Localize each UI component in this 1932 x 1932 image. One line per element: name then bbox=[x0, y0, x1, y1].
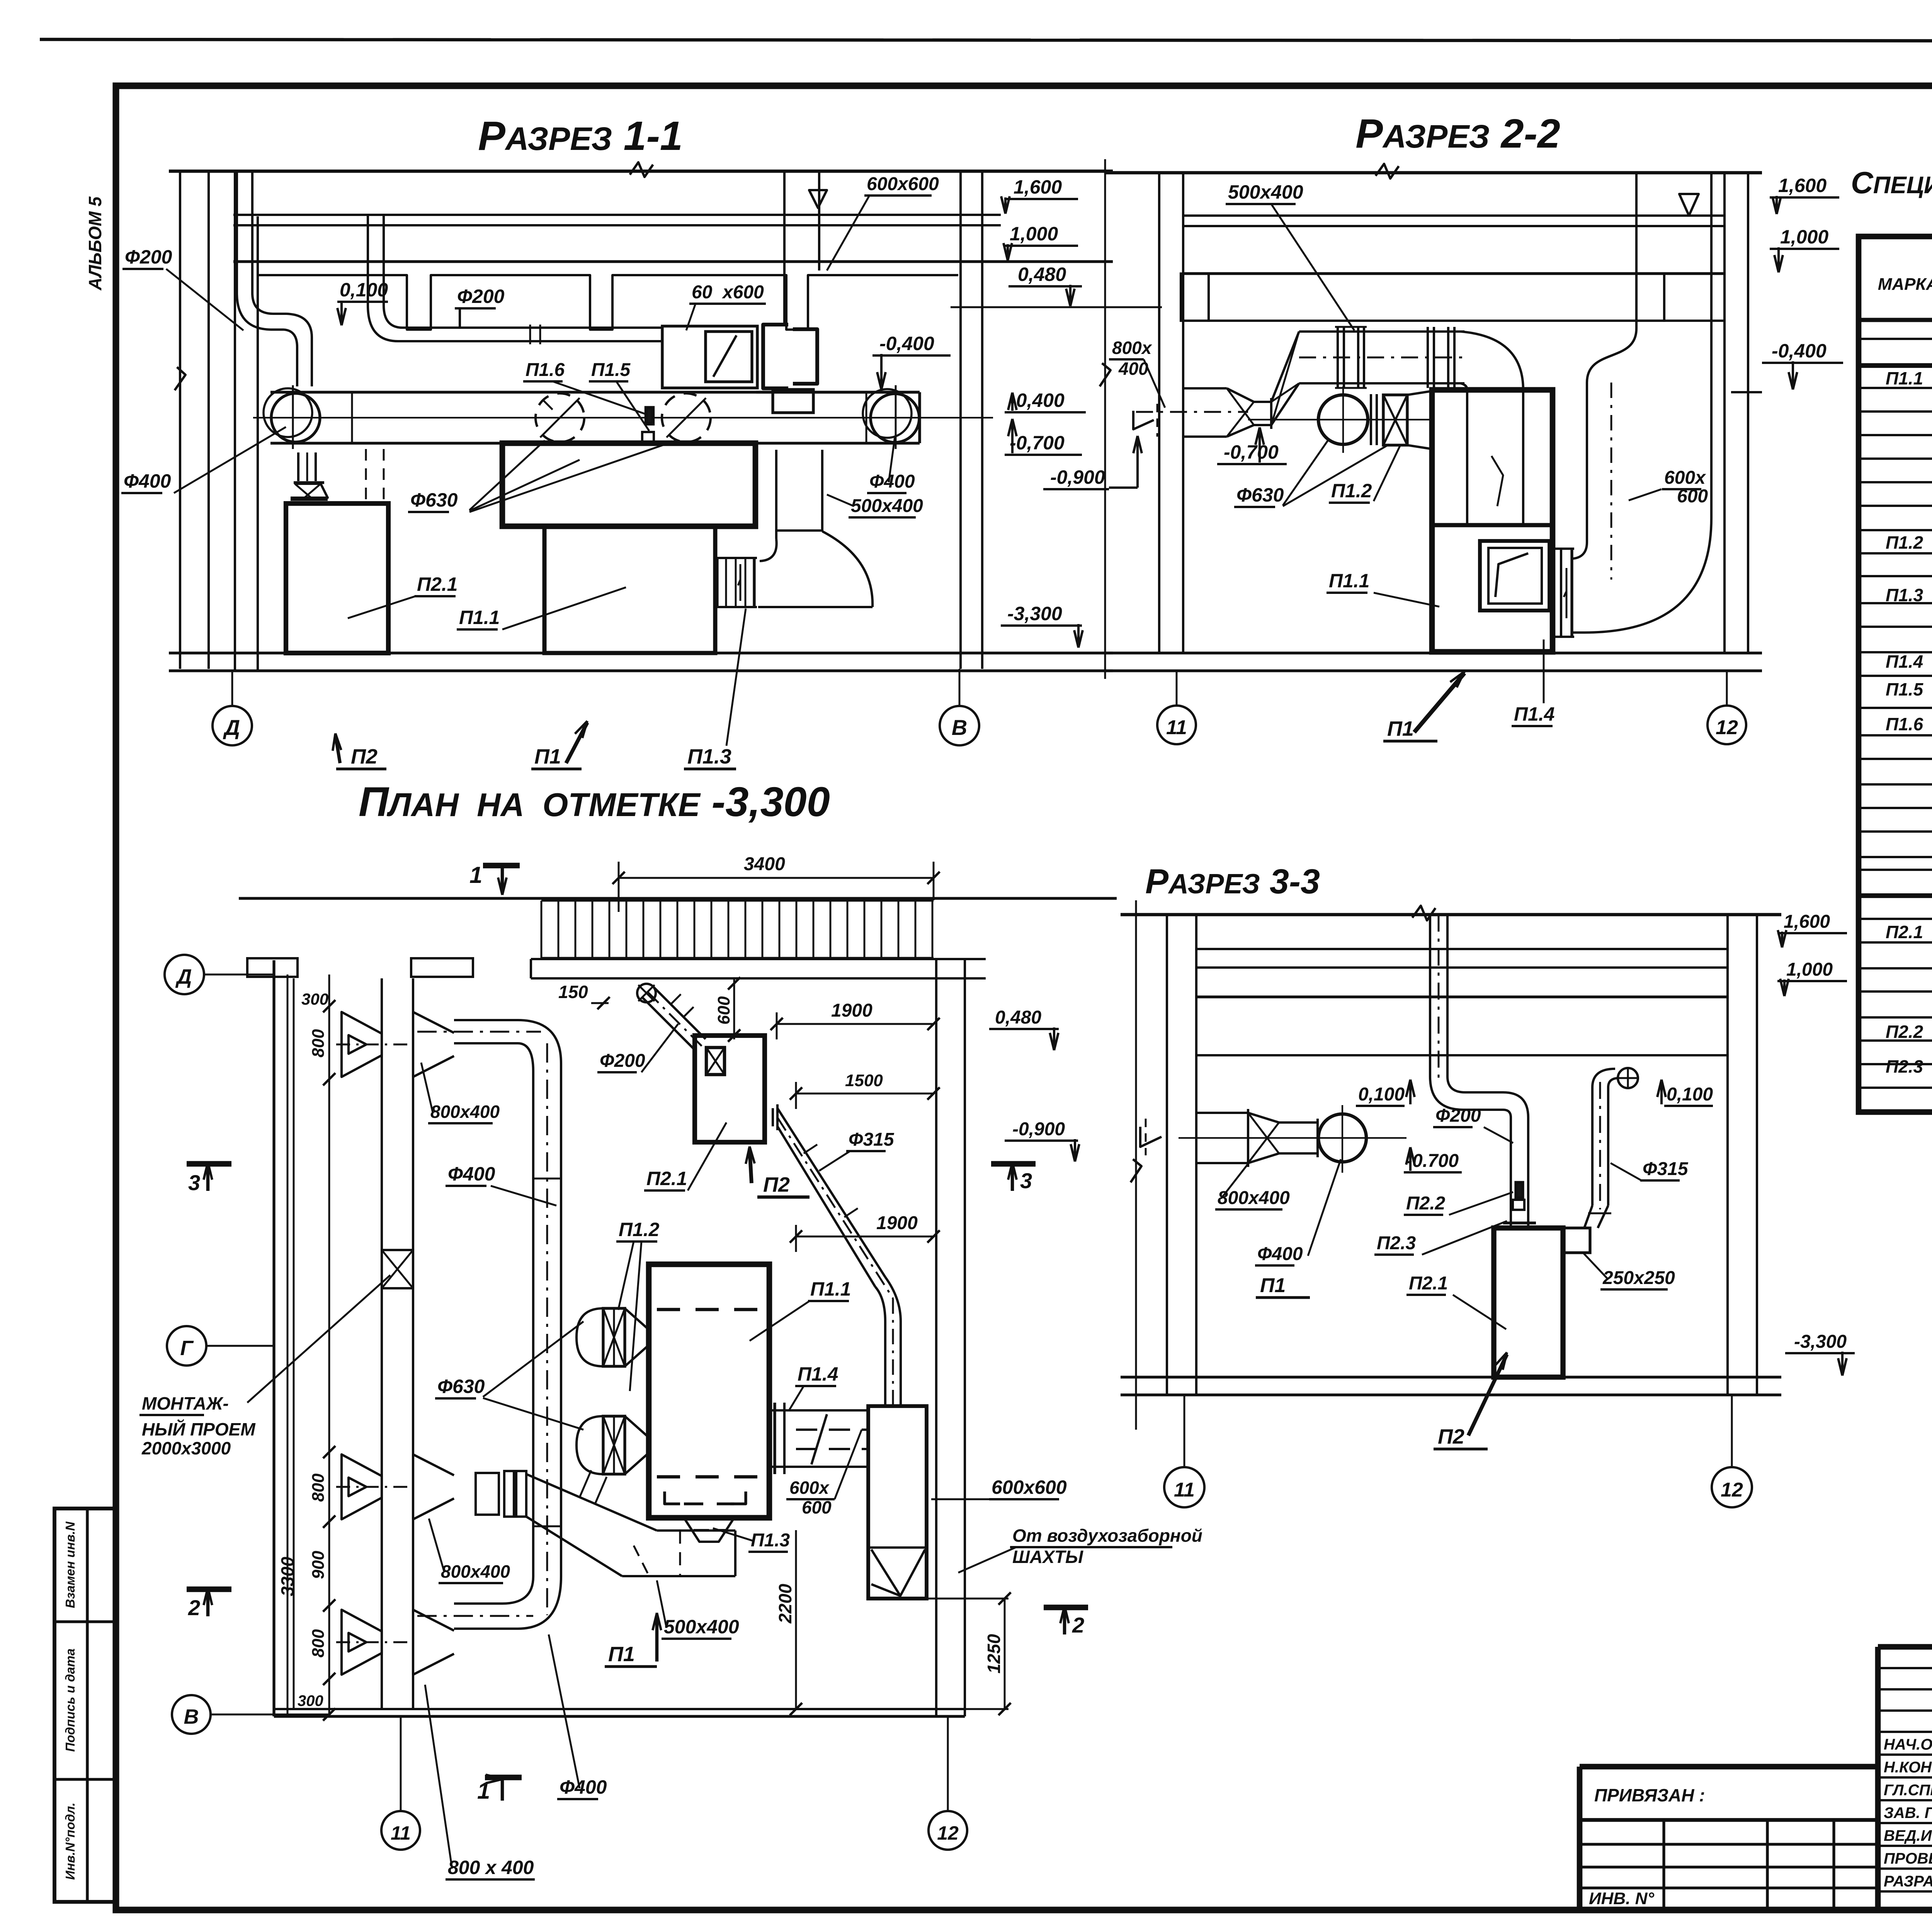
s3-3 axis 11 bbox=[1184, 1395, 1185, 1467]
svg-text:2000х3000: 2000х3000 bbox=[141, 1438, 231, 1458]
svg-text:2: 2 bbox=[1072, 1613, 1084, 1637]
plan 500x400 diagonal bbox=[526, 1474, 657, 1531]
s2-2 valve P1.2 box bbox=[1383, 395, 1407, 445]
svg-text:300: 300 bbox=[298, 1692, 323, 1709]
svg-text:П1.3: П1.3 bbox=[1886, 585, 1923, 605]
s1-1 duct end circle right bbox=[871, 394, 919, 442]
svg-text:П1: П1 bbox=[1387, 717, 1414, 740]
plan loop duct bottom run bbox=[454, 1602, 502, 1605]
svg-text:Ф630: Ф630 bbox=[1236, 484, 1284, 506]
svg-text:Г: Г bbox=[180, 1337, 194, 1360]
svg-text:Инв.N°подл.: Инв.N°подл. bbox=[63, 1803, 77, 1880]
plan f315 flange bbox=[764, 1106, 766, 1128]
svg-text:АЛЬБОМ 5: АЛЬБОМ 5 bbox=[85, 196, 105, 291]
plan funnel top bbox=[342, 1012, 382, 1077]
svg-text:П2: П2 bbox=[763, 1173, 790, 1196]
spec table row lines bbox=[1859, 338, 1932, 340]
s2-2 axis 12 bbox=[1726, 671, 1728, 706]
svg-text:П1: П1 bbox=[534, 745, 561, 768]
s3-3 inlet triangle bbox=[1140, 1127, 1162, 1147]
s1-1 shaft 600x600 lines bbox=[783, 173, 786, 325]
svg-text:1250: 1250 bbox=[984, 1634, 1004, 1673]
svg-text:500х400: 500х400 bbox=[664, 1616, 739, 1638]
plan dim 2200 bbox=[795, 1530, 797, 1709]
svg-text:ИНВ. N°: ИНВ. N° bbox=[1589, 1889, 1654, 1908]
svg-text:П2.2: П2.2 bbox=[1886, 1022, 1923, 1042]
svg-text:Ф200: Ф200 bbox=[600, 1051, 645, 1071]
svg-text:1,600: 1,600 bbox=[1784, 912, 1830, 932]
s3-3 beam line bbox=[1196, 1054, 1728, 1056]
svg-text:3: 3 bbox=[1020, 1168, 1032, 1193]
plan section mark 3 right bbox=[991, 1161, 1036, 1167]
s2-2 axis 11 bbox=[1176, 671, 1178, 706]
svg-text:П2: П2 bbox=[351, 745, 378, 768]
s3-3 ceiling break bbox=[1412, 906, 1435, 920]
plan right unit funnel bbox=[868, 1546, 927, 1549]
svg-text:11: 11 bbox=[391, 1822, 411, 1844]
s1-1 dashed pipe to P2.1 bbox=[365, 449, 367, 502]
plan dim 600 bbox=[733, 978, 735, 1039]
plan right wall bbox=[935, 959, 937, 1716]
plan funnel mid bbox=[342, 1454, 382, 1519]
svg-text:Ф400: Ф400 bbox=[869, 471, 915, 492]
svg-text:Ф400: Ф400 bbox=[448, 1163, 495, 1185]
svg-text:Ф630: Ф630 bbox=[437, 1376, 485, 1397]
svg-text:РАЗРЕЗ 2-2: РАЗРЕЗ 2-2 bbox=[1355, 111, 1560, 156]
svg-text:-0,400: -0,400 bbox=[879, 333, 934, 354]
plan P2.1 inner square bbox=[706, 1048, 724, 1075]
s3-3 fan circle bbox=[1318, 1114, 1366, 1162]
svg-text:500х400: 500х400 bbox=[1228, 181, 1303, 203]
plan dim 3400 bbox=[619, 877, 934, 879]
s1-1 duct riser2 bbox=[367, 215, 369, 305]
s3-3 left break mark bbox=[1131, 1159, 1141, 1182]
s3-3 slab soffit bbox=[1196, 995, 1728, 998]
s3-3 ceiling line1 bbox=[1121, 913, 1781, 917]
s1-1 right wall lines bbox=[959, 171, 962, 669]
plan loop duct centerlines bbox=[546, 1043, 548, 1615]
svg-text:П1.3: П1.3 bbox=[751, 1530, 790, 1551]
svg-text:Ф400: Ф400 bbox=[1257, 1244, 1303, 1264]
svg-text:600: 600 bbox=[1677, 486, 1708, 507]
plan 500x400 horizontal bbox=[657, 1529, 735, 1532]
svg-text:П1.4: П1.4 bbox=[798, 1363, 838, 1385]
s2-2 outer thin wall line bbox=[1104, 159, 1106, 679]
svg-text:-0,400: -0,400 bbox=[1010, 389, 1065, 411]
s2-2 duct centerline dash bbox=[1136, 411, 1248, 413]
plan P1.1 bottom cone bbox=[684, 1518, 734, 1542]
s3-3 pipe elbow right bbox=[1430, 1077, 1503, 1110]
s1-1 unit P1.1 upper box bbox=[502, 443, 755, 526]
svg-text:-3,300: -3,300 bbox=[1007, 603, 1062, 624]
s2-2 floor lines bbox=[1105, 651, 1762, 654]
left stamp column boxes bbox=[54, 1509, 116, 1902]
svg-text:60 х600: 60 х600 bbox=[692, 282, 764, 303]
svg-text:0,100: 0,100 bbox=[340, 279, 388, 301]
svg-text:РАЗРЕЗ 3-3: РАЗРЕЗ 3-3 bbox=[1145, 862, 1320, 901]
s2-2 left wall bbox=[1158, 173, 1160, 653]
s1-1 main duct band bbox=[270, 391, 920, 393]
plan bottom wall bbox=[274, 1708, 965, 1710]
svg-text:1900: 1900 bbox=[876, 1213, 918, 1233]
s2-2 inlet triangle bbox=[1133, 411, 1154, 429]
s3-3 axis 12 bbox=[1731, 1395, 1733, 1467]
plan top small wall pieces bbox=[247, 958, 298, 977]
svg-text:800х400: 800х400 bbox=[1218, 1188, 1290, 1208]
s2-2 duct flange 1 bbox=[1337, 327, 1339, 388]
svg-text:600х600: 600х600 bbox=[992, 1476, 1067, 1498]
svg-text:П1.4: П1.4 bbox=[1514, 703, 1554, 725]
plan filter 2 bbox=[577, 1416, 603, 1474]
plan P1.1 dashed top bbox=[657, 1308, 761, 1311]
s1-1 duct joint line bbox=[351, 392, 353, 443]
svg-text:1,000: 1,000 bbox=[1010, 223, 1058, 245]
svg-text:СПЕЦИФИКАЦИЯ ОТОПИТЕЛЬНО-ВЕНТ: СПЕЦИФИКАЦИЯ ОТОПИТЕЛЬНО-ВЕНТИЛАЦИОННЫХ … bbox=[1851, 165, 1932, 200]
plan P1.1 box bbox=[649, 1264, 769, 1518]
plan wall crosshatch box bbox=[382, 1250, 413, 1288]
s2-2 beam notch left bbox=[1181, 274, 1209, 321]
s2-2 right wall bbox=[1723, 173, 1726, 653]
svg-text:ВЕД.ИНЖ.: ВЕД.ИНЖ. bbox=[1884, 1827, 1932, 1844]
s3-3 right wall bbox=[1726, 915, 1729, 1395]
svg-text:250х250: 250х250 bbox=[1602, 1268, 1675, 1288]
svg-text:0,480: 0,480 bbox=[1018, 264, 1066, 285]
svg-text:800: 800 bbox=[309, 1029, 328, 1058]
s2-2 rising transition bbox=[1271, 332, 1299, 402]
plan f200 duct diagonal bbox=[637, 984, 656, 1002]
svg-text:П1.5: П1.5 bbox=[1886, 679, 1923, 699]
svg-text:ПРИВЯЗАН :: ПРИВЯЗАН : bbox=[1594, 1785, 1705, 1805]
plan dim 1900 a bbox=[777, 1023, 934, 1025]
s1-1 left wall lines bbox=[179, 171, 181, 669]
s3-3 pipe f200 vertical bbox=[1429, 915, 1431, 1077]
plan section mark 3 left bbox=[187, 1161, 231, 1167]
s1-1 fan circle dashed 2 bbox=[662, 393, 711, 442]
svg-text:П2.3: П2.3 bbox=[1377, 1233, 1416, 1253]
svg-text:12: 12 bbox=[937, 1822, 959, 1844]
s1-1 unit P1.1 lower box bbox=[544, 526, 715, 653]
s2-2 break mark bbox=[1100, 363, 1111, 386]
svg-text:П1.4: П1.4 bbox=[1886, 651, 1923, 672]
plan left wall bbox=[272, 960, 275, 1716]
svg-text:МАРКА: МАРКА bbox=[1878, 275, 1932, 294]
svg-text:П2.1: П2.1 bbox=[1409, 1273, 1448, 1294]
svg-text:12: 12 bbox=[1716, 716, 1738, 739]
svg-text:Д: Д bbox=[223, 715, 240, 740]
s1-1 valve P1.3 bbox=[716, 558, 718, 607]
svg-text:1: 1 bbox=[469, 862, 482, 888]
s1-1 P2.1 inlet cone bbox=[297, 452, 299, 481]
plan dim 1500 bbox=[796, 1093, 934, 1095]
s1-1 fan circle dashed 1 bbox=[536, 393, 584, 442]
plan axis B bbox=[172, 1695, 211, 1734]
svg-text:-0,900: -0,900 bbox=[1012, 1119, 1065, 1139]
s2-2 slab soffit bbox=[1183, 272, 1725, 275]
svg-text:Ф315: Ф315 bbox=[849, 1129, 895, 1150]
svg-text:Ф200: Ф200 bbox=[457, 286, 505, 307]
s3-3 f315 top elbow bbox=[1592, 1069, 1615, 1087]
plan left dim line bbox=[328, 975, 330, 1714]
spec table outer frame bbox=[1859, 236, 1932, 1112]
svg-text:П2.2: П2.2 bbox=[1406, 1193, 1446, 1214]
svg-text:2200: 2200 bbox=[775, 1583, 795, 1624]
s1-1 ceiling line3 bbox=[233, 224, 1001, 226]
s2-2 inlet duct bbox=[1183, 387, 1227, 389]
s2-2 ceiling line2 bbox=[1183, 214, 1725, 217]
svg-text:0,480: 0,480 bbox=[995, 1007, 1041, 1028]
plan P1.4 duct bbox=[769, 1409, 868, 1412]
svg-text:2: 2 bbox=[188, 1595, 200, 1620]
s3-3 pipe elbow down bbox=[1503, 1092, 1528, 1117]
s3-3 sensor P2.2 bbox=[1516, 1182, 1523, 1198]
s2-2 beam line bbox=[1183, 320, 1725, 322]
s1-1 duct right part bbox=[756, 391, 920, 393]
title block top border bbox=[1878, 1644, 1932, 1650]
s2-2 upper duct band bbox=[1299, 330, 1464, 333]
svg-text:800х: 800х bbox=[1112, 338, 1153, 358]
s3-3 unit top flange bbox=[1503, 1221, 1536, 1224]
svg-text:Ф400: Ф400 bbox=[560, 1776, 607, 1798]
svg-text:Подпись и дата: Подпись и дата bbox=[63, 1648, 77, 1752]
svg-text:Д: Д bbox=[175, 965, 192, 988]
svg-text:0,100: 0,100 bbox=[1358, 1084, 1405, 1105]
plan f315 diagonal bbox=[777, 1108, 885, 1277]
s2-2 level triangle bbox=[1679, 194, 1699, 216]
s3-3 left outer line bbox=[1135, 900, 1137, 1430]
svg-text:НАЧ.ОТД.: НАЧ.ОТД. bbox=[1884, 1736, 1932, 1753]
svg-text:МОНТАЖ-: МОНТАЖ- bbox=[142, 1393, 229, 1413]
s2-2 right duct centerline bbox=[1611, 383, 1612, 580]
plan section mark 2 right bbox=[1044, 1605, 1088, 1611]
svg-text:П1.6: П1.6 bbox=[1886, 714, 1923, 734]
plan axis G bbox=[167, 1326, 206, 1366]
s2-2 P1.4 flange bbox=[1570, 549, 1573, 637]
svg-text:900: 900 bbox=[309, 1551, 328, 1579]
s1-1 sensor glyphs bbox=[646, 408, 653, 424]
s1-1 floor lines bbox=[169, 651, 1113, 654]
s3-3 f315 bottom transition bbox=[1584, 1206, 1592, 1228]
s3-3 inlet duct bbox=[1196, 1112, 1248, 1114]
svg-text:-3,300: -3,300 bbox=[1794, 1332, 1847, 1352]
svg-text:-0,700: -0,700 bbox=[1010, 432, 1065, 454]
plan axis D bbox=[165, 955, 204, 994]
s1-1 ceiling line2 bbox=[233, 214, 1001, 216]
svg-text:НЫЙ ПРОЕМ: НЫЙ ПРОЕМ bbox=[142, 1419, 256, 1439]
plan top wall line bbox=[239, 897, 1117, 900]
s2-2 unit inner box bbox=[1480, 541, 1549, 611]
s1-1 duct end circle left bbox=[271, 393, 320, 442]
svg-text:800х400: 800х400 bbox=[430, 1102, 500, 1122]
svg-text:П1.2: П1.2 bbox=[1886, 532, 1923, 553]
svg-text:12: 12 bbox=[1721, 1479, 1743, 1501]
s1-1 filter box 600x600 bbox=[662, 326, 757, 388]
s1-1 ceiling slab line bbox=[169, 170, 1113, 173]
svg-text:Ф630: Ф630 bbox=[410, 489, 458, 511]
sheet outer top edge line bbox=[40, 39, 1932, 41]
svg-text:РАЗРЕЗ 1-1: РАЗРЕЗ 1-1 bbox=[478, 113, 683, 159]
s2-2 right duct outer wall bbox=[1572, 173, 1711, 633]
svg-text:800 х 400: 800 х 400 bbox=[448, 1857, 534, 1878]
s1-1 unit P2.1 box bbox=[286, 503, 388, 653]
svg-text:0,100: 0,100 bbox=[1667, 1084, 1713, 1105]
svg-text:1,000: 1,000 bbox=[1780, 226, 1828, 248]
spec table header row bbox=[1859, 318, 1932, 322]
svg-text:П1.6: П1.6 bbox=[526, 360, 565, 380]
svg-text:В: В bbox=[952, 715, 967, 740]
svg-text:П1.1: П1.1 bbox=[459, 607, 500, 628]
svg-text:ШАХТЫ: ШАХТЫ bbox=[1012, 1547, 1083, 1567]
s1-1 wall break mark bbox=[175, 367, 185, 390]
svg-text:300: 300 bbox=[301, 990, 328, 1008]
plan funnel bottom bbox=[342, 1610, 382, 1675]
svg-text:3400: 3400 bbox=[744, 854, 785, 874]
s2-2 right duct inner wall bbox=[1572, 173, 1636, 559]
plan hatch strip stairs bbox=[541, 900, 934, 902]
svg-text:1,000: 1,000 bbox=[1786, 959, 1833, 980]
svg-text:-0,400: -0,400 bbox=[1772, 340, 1827, 362]
svg-text:ПЛАН НА ОТМЕТКЕ -3,300: ПЛАН НА ОТМЕТКЕ -3,300 bbox=[359, 778, 830, 825]
svg-text:П2.1: П2.1 bbox=[417, 573, 457, 595]
svg-text:800: 800 bbox=[309, 1473, 328, 1502]
svg-text:150: 150 bbox=[558, 982, 588, 1002]
svg-text:ГЛ.СПЕЦ.: ГЛ.СПЕЦ. bbox=[1884, 1782, 1932, 1799]
svg-text:П1.5: П1.5 bbox=[591, 360, 631, 380]
s2-2 fan flanges bbox=[1370, 394, 1372, 445]
plan P1.1 dashed bottom bbox=[657, 1475, 761, 1479]
s3-3 floor lines bbox=[1121, 1376, 1781, 1378]
s1-1 duct riser f200 bbox=[236, 173, 238, 293]
svg-text:В: В bbox=[184, 1705, 199, 1728]
plan loop duct joints bbox=[533, 1178, 561, 1180]
svg-text:1,600: 1,600 bbox=[1778, 175, 1827, 196]
plan loop duct vertical run bbox=[532, 1071, 534, 1577]
s3-3 ceiling line3 bbox=[1196, 966, 1728, 969]
svg-text:РАЗРАБ.: РАЗРАБ. bbox=[1884, 1873, 1932, 1890]
plan axis 12 bbox=[929, 1811, 967, 1850]
s1-1 axis V bbox=[959, 669, 961, 706]
svg-text:П1.2: П1.2 bbox=[1331, 480, 1372, 502]
svg-text:П1: П1 bbox=[608, 1643, 635, 1666]
svg-text:800: 800 bbox=[309, 1629, 328, 1658]
svg-text:П1.1: П1.1 bbox=[1329, 570, 1369, 592]
svg-text:11: 11 bbox=[1174, 1479, 1195, 1501]
plan P2.1 box bbox=[695, 1036, 765, 1142]
svg-text:800х400: 800х400 bbox=[441, 1561, 510, 1582]
plan loop duct top bend bbox=[518, 1020, 561, 1063]
svg-text:ПРОВЕР.: ПРОВЕР. bbox=[1884, 1850, 1932, 1867]
svg-text:600х: 600х bbox=[789, 1478, 830, 1498]
title block signature grid bbox=[1875, 1647, 1881, 1909]
s2-2 unit inner divider bbox=[1432, 523, 1553, 527]
svg-text:ЗАВ. ГР.: ЗАВ. ГР. bbox=[1884, 1804, 1932, 1821]
plan loop duct bottom bend bbox=[518, 1577, 561, 1629]
svg-text:П1.1: П1.1 bbox=[1886, 368, 1923, 388]
svg-text:1900: 1900 bbox=[831, 1000, 872, 1021]
svg-text:-0,700: -0,700 bbox=[1224, 441, 1279, 463]
plan dim 1900 b bbox=[796, 1236, 934, 1238]
s2-2 unit inner duct bbox=[1466, 390, 1468, 525]
plan loop duct top run bbox=[454, 1019, 518, 1021]
svg-text:500х400: 500х400 bbox=[851, 496, 923, 516]
svg-text:Ф315: Ф315 bbox=[1643, 1159, 1689, 1179]
svg-text:Ф400: Ф400 bbox=[124, 470, 171, 492]
s1-1 P1.3 leader bbox=[726, 609, 746, 746]
plan corridor wall bbox=[381, 978, 383, 1709]
svg-text:1500: 1500 bbox=[845, 1071, 883, 1090]
svg-text:11: 11 bbox=[1166, 716, 1187, 739]
svg-text:Ф200: Ф200 bbox=[125, 246, 172, 268]
plan section mark 2 left bbox=[187, 1587, 231, 1592]
plan wall band below hatch bbox=[531, 958, 986, 960]
s3-3 unit box bbox=[1494, 1228, 1563, 1377]
s3-3 left wall bbox=[1166, 915, 1168, 1395]
svg-text:1,600: 1,600 bbox=[1014, 176, 1062, 198]
svg-text:П2.1: П2.1 bbox=[1886, 922, 1923, 942]
s2-2 unit box bbox=[1432, 390, 1553, 652]
plan axis 11 bbox=[381, 1811, 420, 1850]
s2-2 ceiling break bbox=[1376, 164, 1399, 179]
svg-text:Взамен инв.N: Взамен инв.N bbox=[63, 1521, 77, 1608]
plan dim 1250 bbox=[1004, 1599, 1006, 1709]
s1-1 axis D bbox=[231, 671, 233, 706]
s1-1 slab soffit line bbox=[233, 260, 1113, 263]
svg-text:П1.2: П1.2 bbox=[619, 1219, 660, 1240]
plan filter 1 bbox=[577, 1308, 603, 1366]
svg-text:-0,900: -0,900 bbox=[1050, 466, 1105, 488]
privjazan box bbox=[1580, 1764, 1878, 1770]
s1-1 beam profile bbox=[258, 275, 958, 330]
s2-2 ceiling line1 bbox=[1105, 171, 1762, 175]
svg-text:П2.3: П2.3 bbox=[1886, 1056, 1923, 1077]
svg-text:П1.3: П1.3 bbox=[687, 745, 731, 768]
s2-2 fan circle bbox=[1318, 395, 1368, 444]
s3-3 f315 vertical bbox=[1591, 1087, 1594, 1206]
svg-text:600х: 600х bbox=[1664, 468, 1706, 488]
plan 500x400 flanges bbox=[504, 1471, 514, 1517]
svg-text:600х600: 600х600 bbox=[867, 174, 939, 194]
s1-1 level triangle bbox=[809, 190, 827, 208]
s1-1 ceiling break mark bbox=[630, 162, 653, 177]
s2-2 ceiling line3 bbox=[1183, 225, 1725, 227]
s2-2 duct flange 2 bbox=[1427, 327, 1429, 388]
s2-2 beam notch right bbox=[1636, 274, 1664, 321]
svg-text:П1.1: П1.1 bbox=[810, 1278, 851, 1300]
s2-2 valve cone bbox=[1407, 391, 1432, 395]
svg-text:Н.КОНТР.: Н.КОНТР. bbox=[1884, 1759, 1932, 1776]
svg-text:П2: П2 bbox=[1438, 1425, 1464, 1448]
svg-text:3: 3 bbox=[188, 1170, 200, 1195]
svg-text:П2.1: П2.1 bbox=[646, 1168, 687, 1189]
svg-text:600: 600 bbox=[714, 996, 733, 1025]
s1-1 f200 horizontal duct bbox=[403, 327, 662, 329]
s3-3 ceiling line2 bbox=[1196, 948, 1728, 950]
svg-text:От воздухозаборной: От воздухозаборной bbox=[1012, 1526, 1202, 1546]
s1-1 elbow 500x400 bbox=[775, 450, 777, 539]
s2-2 elbow down to unit bbox=[1461, 332, 1523, 390]
plan right unit box bbox=[868, 1406, 927, 1599]
svg-text:Ф200: Ф200 bbox=[1435, 1105, 1481, 1126]
svg-text:П1: П1 bbox=[1260, 1274, 1286, 1297]
